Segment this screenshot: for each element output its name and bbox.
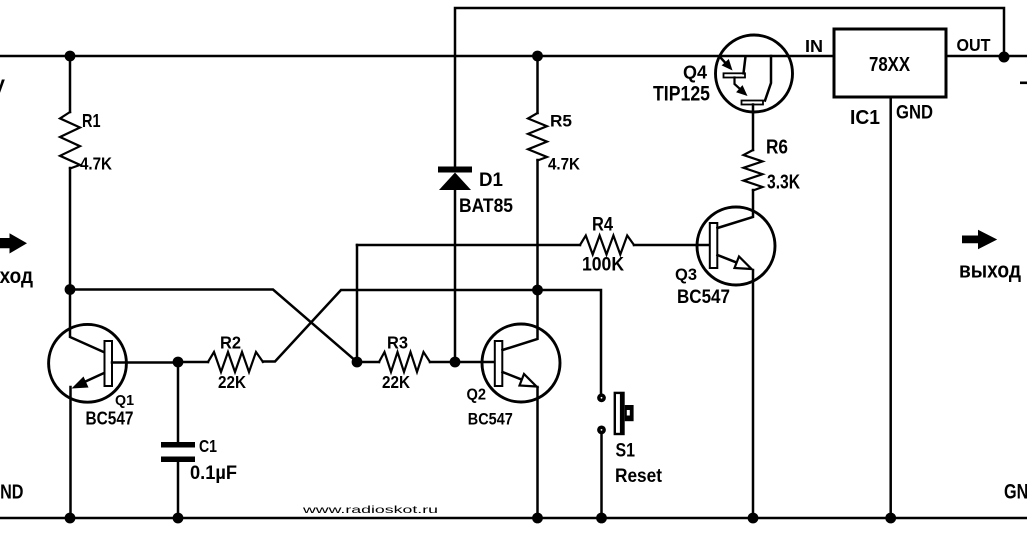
switch S1 (597, 392, 634, 518)
svg-text:BC547: BC547 (468, 410, 513, 429)
transistor Q1 (49, 289, 178, 518)
wire cross line B from R2 right to S1 (263, 290, 601, 398)
svg-text:R5: R5 (550, 112, 572, 131)
svg-text:GND: GND (1004, 481, 1027, 504)
transistor Q3 (697, 190, 775, 518)
wire base line to R4 (357, 244, 580, 247)
svg-text:Reset: Reset (615, 465, 662, 487)
node R3 left (352, 357, 363, 368)
label plus fragment right edge (1020, 82, 1027, 85)
node bottom Q2 (532, 513, 543, 524)
svg-text:IN: IN (805, 36, 823, 56)
node top rail R1 (65, 51, 76, 62)
node R3 right Q2 base (450, 357, 461, 368)
svg-text:22K: 22K (218, 372, 246, 392)
svg-text:D1: D1 (479, 170, 503, 191)
transistor Q2 (455, 290, 560, 518)
svg-text:IC1: IC1 (850, 107, 880, 129)
svg-text:вход: вход (0, 265, 33, 288)
svg-text:выход: выход (959, 258, 1021, 283)
svg-text:S1: S1 (616, 441, 636, 462)
svg-text:V: V (0, 77, 6, 99)
svg-text:R3: R3 (387, 333, 408, 353)
svg-text:3.3K: 3.3K (767, 172, 800, 194)
resistor R2 (178, 352, 263, 372)
svg-text:www.radioskot.ru: www.radioskot.ru (301, 504, 438, 516)
node bottom IC1 GND (885, 513, 896, 524)
svg-text:R6: R6 (766, 137, 788, 159)
transistor Q4 (716, 35, 793, 112)
output arrow (962, 230, 997, 249)
wire top feedback from D1 cathode to OUT (455, 8, 1004, 166)
svg-text:BC547: BC547 (86, 409, 134, 429)
wire bottom rail (0, 517, 1027, 520)
resistor R4 (580, 236, 710, 255)
svg-text:100K: 100K (582, 255, 624, 276)
node bottom S1 (596, 513, 607, 524)
node Q1 base C1 R2 (173, 357, 184, 368)
resistor R3 (357, 352, 455, 372)
resistor R6 (744, 112, 763, 191)
resistor R1 (60, 56, 80, 289)
svg-text:BAT85: BAT85 (459, 196, 513, 217)
svg-text:R1: R1 (82, 111, 101, 131)
svg-text:Q4: Q4 (683, 62, 708, 83)
svg-text:22K: 22K (382, 372, 410, 392)
svg-text:C1: C1 (199, 436, 217, 456)
diode D1 (438, 167, 472, 363)
svg-text:BC547: BC547 (677, 287, 730, 308)
wire top rail (0, 55, 834, 58)
svg-text:GND: GND (0, 481, 24, 504)
svg-text:Q3: Q3 (675, 266, 697, 284)
node bottom Q1 (65, 513, 76, 524)
svg-text:Q1: Q1 (115, 392, 134, 409)
capacitor C1 (161, 362, 195, 518)
svg-text:Q2: Q2 (467, 387, 487, 404)
node Q2 collector line B (532, 285, 543, 296)
IC1 78XX regulator (834, 29, 946, 518)
svg-text:4.7K: 4.7K (80, 154, 112, 174)
svg-text:R2: R2 (220, 333, 241, 353)
svg-text:4.7K: 4.7K (548, 155, 581, 174)
node top rail R5 (532, 51, 543, 62)
svg-text:TIP125: TIP125 (653, 83, 710, 106)
input arrow (0, 233, 27, 253)
wire cross line A from Q1 collector node to R3 left (70, 290, 357, 363)
svg-text:0.1µF: 0.1µF (190, 463, 237, 484)
node bottom C1 (173, 513, 184, 524)
node Q1 collector (65, 284, 76, 295)
svg-text:OUT: OUT (957, 35, 991, 55)
node bottom Q3 (748, 513, 759, 524)
resistor R5 (528, 56, 547, 290)
wire out rail (946, 55, 1027, 58)
wire R3 node riser to R4 line (356, 245, 359, 362)
svg-text:78XX: 78XX (869, 53, 910, 76)
svg-text:R4: R4 (592, 215, 613, 236)
svg-text:GND: GND (896, 103, 933, 124)
node OUT junction (999, 52, 1010, 63)
